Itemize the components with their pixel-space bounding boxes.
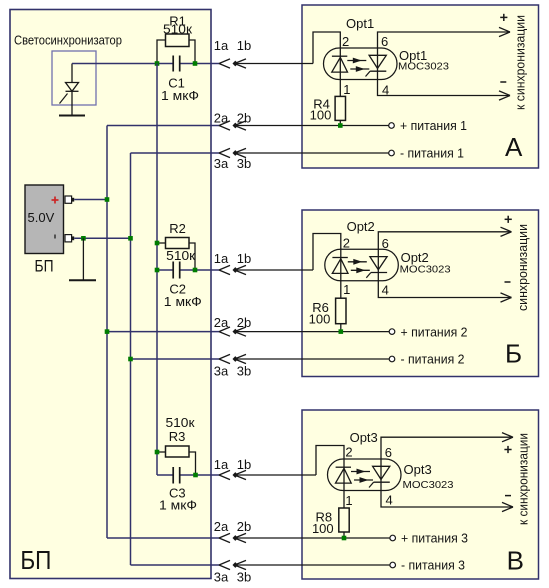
label Opt3 top xyxy=(350,430,378,445)
svg-text:БП: БП xyxy=(35,256,54,275)
svg-text:А: А xyxy=(505,132,523,162)
wire 0V rail xyxy=(130,153,132,565)
label R8 xyxy=(315,510,332,525)
label 2a xyxy=(214,110,229,125)
connector 2b xyxy=(232,121,389,130)
connector 1b xyxy=(232,265,313,274)
label sync text В xyxy=(516,433,531,525)
label Opt3 right xyxy=(404,462,432,477)
label R2 xyxy=(169,221,186,236)
pin 6 xyxy=(382,236,389,251)
label Светосинхронизатор xyxy=(14,33,122,48)
capacitor C2 1uF xyxy=(173,262,180,279)
label 1a xyxy=(214,457,229,472)
label 3b xyxy=(237,363,251,378)
svg-text:2b: 2b xyxy=(237,519,251,534)
svg-text:2: 2 xyxy=(345,445,352,460)
node wire3-right xyxy=(193,473,198,478)
svg-text:к синхронизации: к синхронизации xyxy=(513,15,528,110)
wire input to pin2 Opt2 xyxy=(313,234,341,271)
channel box В outline xyxy=(302,410,539,579)
svg-text:МОС3023: МОС3023 xyxy=(400,263,451,275)
node R2-left xyxy=(155,241,160,246)
optocoupler Opt3 MOC3023 xyxy=(328,459,402,491)
label BP small xyxy=(35,256,54,275)
ground xyxy=(69,238,96,280)
svg-text:МОС3023: МОС3023 xyxy=(398,60,449,72)
svg-text:6: 6 xyxy=(382,236,389,251)
label 1a xyxy=(214,38,229,53)
svg-text:3a: 3a xyxy=(214,156,229,171)
svg-text:4: 4 xyxy=(382,283,389,298)
svg-text:1 мкФ: 1 мкФ xyxy=(164,294,202,309)
connector 1a xyxy=(219,470,230,479)
node +5V xyxy=(105,197,110,202)
label MOC3023 xyxy=(403,479,454,491)
node R3-left xyxy=(155,450,160,455)
connector 2a xyxy=(219,327,230,336)
label 1b xyxy=(237,457,251,472)
connector 2a xyxy=(219,121,230,130)
wire input to pin2 Opt1 xyxy=(313,32,340,64)
label 3b xyxy=(237,569,251,584)
label 2b xyxy=(237,315,251,330)
label 1uF xyxy=(161,88,199,103)
wire pin6 to + output В xyxy=(381,433,513,459)
svg-text:1 мкФ: 1 мкФ xyxy=(159,497,197,512)
resistor R1 510k xyxy=(157,34,195,64)
terminal + supply Б xyxy=(389,329,395,335)
svg-text:Светосинхронизатор: Светосинхронизатор xyxy=(14,33,122,48)
label 3a xyxy=(214,156,229,171)
label - output В xyxy=(505,495,511,497)
label R4 xyxy=(313,97,330,112)
svg-text:Opt2: Opt2 xyxy=(347,219,375,234)
connector 3b xyxy=(232,148,389,157)
svg-text:1a: 1a xyxy=(214,457,229,472)
connector 1b xyxy=(232,470,316,479)
label C2 xyxy=(169,281,186,296)
node wire1-left xyxy=(155,61,160,66)
node wire2-right xyxy=(193,268,198,273)
node R8 to +supply xyxy=(342,536,347,541)
label 510k xyxy=(166,248,195,263)
svg-text:100: 100 xyxy=(310,108,332,123)
label Opt1 right xyxy=(399,48,427,63)
label MOC3023 xyxy=(400,263,451,275)
svg-text:Opt3: Opt3 xyxy=(350,430,378,445)
svg-text:синхронизации: синхронизации xyxy=(515,224,530,311)
wire 0V pin xyxy=(74,237,130,239)
svg-text:3a: 3a xyxy=(214,569,229,584)
svg-text:R2: R2 xyxy=(169,221,186,236)
node R4 to +supply xyxy=(338,123,343,128)
label C1 xyxy=(168,75,185,90)
connector 1b xyxy=(232,59,313,68)
svg-text:1: 1 xyxy=(343,82,350,97)
svg-text:3b: 3b xyxy=(237,569,251,584)
wire pin6 to + output А xyxy=(378,27,511,48)
node gnd stub xyxy=(81,236,86,241)
svg-text:2b: 2b xyxy=(237,315,251,330)
label sync text А xyxy=(513,15,528,110)
node -supply 2 xyxy=(128,357,133,362)
wire -supply 1 xyxy=(131,152,220,154)
label + output Б xyxy=(505,216,512,223)
label - power А xyxy=(400,146,464,161)
label - power Б xyxy=(401,352,465,367)
label 1a xyxy=(214,251,229,266)
label 100 xyxy=(312,521,334,536)
svg-text:Opt3: Opt3 xyxy=(404,462,432,477)
svg-text:100: 100 xyxy=(312,521,334,536)
terminal + supply В xyxy=(390,535,396,541)
svg-text:3a: 3a xyxy=(214,363,229,378)
capacitor C3 1uF xyxy=(173,467,180,484)
svg-text:2a: 2a xyxy=(214,315,229,330)
capacitor C1 1uF xyxy=(173,56,180,72)
svg-text:Opt1: Opt1 xyxy=(346,16,374,31)
resistor R6 100 xyxy=(336,281,346,332)
svg-text:1b: 1b xyxy=(237,457,251,472)
label 2b xyxy=(237,110,251,125)
wire pin4 to - output А xyxy=(378,80,511,101)
wire +supply 2 xyxy=(107,331,219,333)
power supply G1 5.0V xyxy=(25,185,74,254)
svg-text:6: 6 xyxy=(381,34,388,49)
label 2a xyxy=(214,315,229,330)
label - output Б xyxy=(505,281,511,283)
label 510k xyxy=(166,415,195,430)
pin 4 xyxy=(386,493,393,508)
light synchronizer box xyxy=(52,51,96,105)
label block В xyxy=(507,546,524,576)
svg-text:2b: 2b xyxy=(237,110,251,125)
label + power А xyxy=(400,118,467,133)
wire +5V pin xyxy=(74,199,107,201)
optocoupler Opt1 MOC3023 xyxy=(324,48,398,80)
svg-text:к синхронизации: к синхронизации xyxy=(516,433,531,525)
svg-text:6: 6 xyxy=(385,445,392,460)
svg-text:4: 4 xyxy=(386,493,393,508)
optocoupler Opt2 MOC3023 xyxy=(325,249,399,280)
connector 3b xyxy=(232,560,389,569)
svg-text:1b: 1b xyxy=(237,251,251,266)
connector 1a xyxy=(219,59,230,68)
wire signal 2 xyxy=(157,269,219,271)
wire +supply 1 xyxy=(107,125,219,127)
wire -supply 2 xyxy=(131,358,220,360)
svg-text:2a: 2a xyxy=(214,519,229,534)
terminal - supply А xyxy=(389,150,395,156)
wire input to pin2 Opt3 xyxy=(316,446,344,476)
wire pin6 to + output Б xyxy=(378,227,511,249)
label R6 xyxy=(312,300,329,315)
svg-text:+ питания 3: + питания 3 xyxy=(401,531,468,546)
svg-text:- питания 2: - питания 2 xyxy=(401,352,465,367)
svg-text:510к: 510к xyxy=(166,415,195,430)
pin 1 xyxy=(343,82,350,97)
label 1b xyxy=(237,251,251,266)
label C3 xyxy=(169,485,186,500)
svg-text:510к: 510к xyxy=(166,248,195,263)
terminal - supply В xyxy=(390,562,396,568)
connector 2b xyxy=(232,327,389,336)
channel box A outline xyxy=(302,5,539,168)
label 2a xyxy=(214,519,229,534)
label R1 xyxy=(169,14,186,29)
svg-text:+ питания 2: + питания 2 xyxy=(401,324,468,339)
svg-text:+ питания 1: + питания 1 xyxy=(400,118,467,133)
wire +supply 3 xyxy=(107,537,219,539)
terminal - supply Б xyxy=(389,356,395,362)
label Opt1 top xyxy=(346,16,374,31)
label + power Б xyxy=(401,324,468,339)
svg-text:1a: 1a xyxy=(214,38,229,53)
svg-text:R3: R3 xyxy=(169,429,186,444)
label - power В xyxy=(401,558,465,573)
svg-text:МОС3023: МОС3023 xyxy=(403,479,454,491)
svg-text:2a: 2a xyxy=(214,110,229,125)
label - output А xyxy=(500,81,506,83)
channel box Б outline xyxy=(302,210,539,377)
svg-text:- питания 3: - питания 3 xyxy=(401,558,465,573)
svg-text:1 мкФ: 1 мкФ xyxy=(161,88,199,103)
connector 2a xyxy=(219,533,230,542)
wire signal 1 xyxy=(72,63,219,65)
pin 2 xyxy=(345,445,352,460)
resistor R4 100 xyxy=(335,80,345,126)
node R6 to +supply xyxy=(339,329,344,334)
pin 6 xyxy=(385,445,392,460)
node wire2-left xyxy=(155,268,160,273)
label MOC3023 xyxy=(398,60,449,72)
svg-text:1b: 1b xyxy=(237,38,251,53)
enclosure BP unit box xyxy=(10,10,211,579)
label + output В xyxy=(504,446,511,453)
node +supply 2 xyxy=(105,329,110,334)
pin 1 xyxy=(345,493,352,508)
label 3a xyxy=(214,569,229,584)
svg-text:1a: 1a xyxy=(214,251,229,266)
label 100 xyxy=(310,108,332,123)
pin 4 xyxy=(382,283,389,298)
label block Б xyxy=(505,339,522,369)
svg-text:510к: 510к xyxy=(163,21,192,36)
wire -supply 3 xyxy=(131,564,220,566)
resistor R2 510k xyxy=(157,238,195,271)
pin 2 xyxy=(342,34,349,49)
node 0V xyxy=(128,236,133,241)
wire signal 3 xyxy=(157,474,219,476)
connector 3a xyxy=(219,560,230,569)
svg-text:3b: 3b xyxy=(237,363,251,378)
svg-text:В: В xyxy=(507,546,524,576)
node wire1-right xyxy=(193,61,198,66)
wire pin4 to - output Б xyxy=(378,281,511,302)
svg-text:1: 1 xyxy=(345,493,352,508)
label 2b xyxy=(237,519,251,534)
label 1uF xyxy=(164,294,202,309)
label + power В xyxy=(401,531,468,546)
label block А xyxy=(505,132,523,162)
label 3b xyxy=(237,156,251,171)
pin 2 xyxy=(343,235,350,250)
label 1uF xyxy=(159,497,197,512)
connector 3a xyxy=(219,148,230,157)
resistor R8 100 xyxy=(339,491,349,539)
connector 1a xyxy=(219,265,230,274)
label 100 xyxy=(309,311,331,326)
photothyristor VS1 xyxy=(60,64,79,116)
label Opt2 right xyxy=(401,250,429,265)
svg-text:3b: 3b xyxy=(237,156,251,171)
label 510k xyxy=(163,21,192,36)
connector 3b xyxy=(232,354,389,363)
connector 2b xyxy=(232,533,389,542)
svg-text:2: 2 xyxy=(342,34,349,49)
label BP large xyxy=(20,545,51,575)
svg-text:- питания 1: - питания 1 xyxy=(400,146,464,161)
svg-text:100: 100 xyxy=(309,311,331,326)
terminal + supply А xyxy=(389,123,395,129)
label sync text Б xyxy=(515,224,530,311)
svg-text:Б: Б xyxy=(505,339,522,369)
svg-text:БП: БП xyxy=(20,545,51,575)
label 3a xyxy=(214,363,229,378)
pin 6 xyxy=(381,34,388,49)
label + output А xyxy=(500,14,507,21)
connector 3a xyxy=(219,354,230,363)
pin 4 xyxy=(382,83,389,98)
svg-text:5.0V: 5.0V xyxy=(28,210,55,225)
wire +5V rail xyxy=(106,126,108,539)
label 1b xyxy=(237,38,251,53)
wire signal rail xyxy=(156,64,158,476)
resistor R3 510k xyxy=(157,446,196,475)
ground xyxy=(59,115,85,117)
wire pin4 to - output В xyxy=(381,491,513,512)
svg-text:2: 2 xyxy=(343,235,350,250)
label R3 xyxy=(169,429,186,444)
svg-text:1: 1 xyxy=(343,282,350,297)
pin 1 xyxy=(343,282,350,297)
label Opt2 top xyxy=(347,219,375,234)
